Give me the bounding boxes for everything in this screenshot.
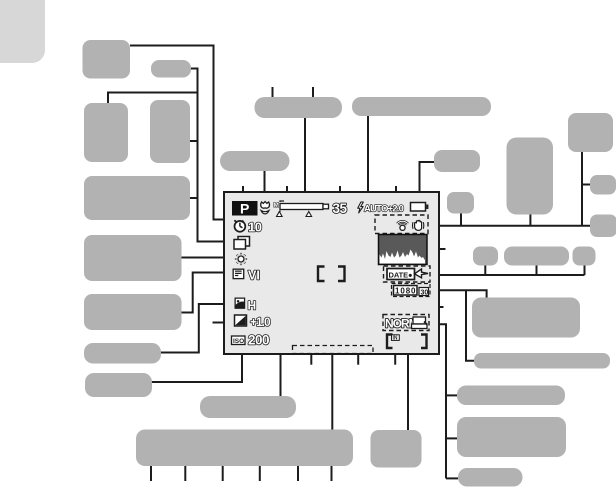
- flash auto indicator: [358, 202, 364, 213]
- NORM indicator: [383, 315, 429, 331]
- box hand: [447, 192, 474, 214]
- box remote: [151, 60, 191, 78]
- svg-text:P: P: [240, 201, 249, 217]
- wire NR small stub: [582, 184, 590, 186]
- box ISO Hi: [85, 373, 152, 397]
- wire date line: [430, 274, 585, 276]
- box link: [590, 215, 616, 238]
- wire focus box ticks: [151, 466, 332, 481]
- LCD screen: [224, 192, 439, 354]
- wire continuous box right: [189, 197, 198, 199]
- box self-timer: [83, 40, 131, 79]
- box exposure bar: [200, 396, 296, 418]
- macro tulip indicator: [261, 202, 270, 209]
- center focus brackets: [318, 267, 345, 282]
- wire picture control: [181, 273, 236, 313]
- box AF AE-AF-L: [255, 97, 343, 118]
- wire wifi box stub: [529, 214, 531, 226]
- wire HS movie branch: [466, 290, 474, 361]
- wire flash box down: [367, 115, 369, 193]
- box HDR: [150, 100, 190, 163]
- box battery: [434, 150, 480, 172]
- wire AF AE/AF-L down to screen: [304, 117, 306, 193]
- wire bottom stub 2: [357, 354, 359, 365]
- svg-text:DATE●: DATE●: [389, 270, 413, 279]
- box date: [504, 247, 569, 266]
- svg-text:IN: IN: [393, 336, 398, 342]
- wire FINE branch: [446, 394, 457, 396]
- wire ISO to Hi1 box: [151, 344, 242, 382]
- wire 1080 movie line: [430, 290, 487, 298]
- battery indicator: [411, 203, 426, 212]
- wire histogram stub: [427, 248, 446, 250]
- box BKT: [84, 103, 128, 162]
- box HS movie: [474, 353, 610, 369]
- box clock: [473, 247, 498, 266]
- IN brackets indicator: [387, 335, 427, 349]
- box wide std: [458, 468, 523, 487]
- wire size branch: [446, 437, 457, 439]
- page edge tab: [0, 0, 45, 63]
- box movie options: [472, 298, 580, 338]
- wire IN box line: [407, 348, 409, 430]
- callout boxes: [83, 40, 616, 487]
- bottom dashed box: [293, 346, 374, 354]
- wire clock stub: [484, 265, 486, 275]
- wire date stub: [536, 265, 538, 275]
- box NR small: [590, 175, 616, 195]
- svg-text:10: 10: [248, 220, 262, 235]
- svg-text:1080: 1080: [395, 287, 416, 296]
- box focus area: [136, 430, 353, 467]
- wire focus mode box down: [264, 170, 266, 193]
- box image size: [457, 417, 566, 457]
- continuous indicator: [234, 237, 250, 250]
- wire IN stub: [394, 349, 396, 365]
- box white balance: [84, 235, 182, 281]
- box continuous: [84, 176, 190, 220]
- wire BKT group top: [108, 93, 198, 105]
- exposure comp indicator: [235, 315, 247, 326]
- wifi hand dashed area: [375, 215, 428, 234]
- wire battery box to screen: [420, 162, 435, 193]
- box image quality: [457, 386, 565, 406]
- picture control indicator: [233, 269, 244, 278]
- wire exposure comp stub: [213, 322, 232, 324]
- box active D-lighting: [84, 343, 161, 364]
- wire mid-right stub: [427, 306, 444, 308]
- wire bottom stub 1: [310, 354, 312, 365]
- svg-text:30: 30: [421, 289, 429, 296]
- box focus mode: [220, 151, 290, 171]
- box airplane: [573, 247, 596, 266]
- wire AF AE/AF-L ticks up: [273, 87, 314, 98]
- mode P indicator: [232, 201, 258, 216]
- wire HDR right: [189, 140, 198, 142]
- box picture control: [84, 294, 182, 330]
- histogram: [379, 235, 428, 265]
- wire focus area line: [331, 282, 333, 430]
- date imprint indicator: [384, 266, 431, 282]
- wire NORM to quality chain: [429, 324, 446, 478]
- box NR big: [568, 113, 613, 152]
- svg-text:AUTO+2.0: AUTO+2.0: [364, 204, 404, 215]
- wire remote chain to continuous indicator: [191, 69, 229, 242]
- self timer 10 indicator: [234, 220, 245, 231]
- wire top edge stubs: [243, 186, 396, 192]
- movie 1080 indicator: [392, 284, 431, 297]
- wire airplane stub: [584, 265, 586, 275]
- wire self-timer box to screen: [130, 46, 229, 220]
- svg-text:ISO: ISO: [233, 338, 244, 345]
- svg-text:+1.0: +1.0: [250, 315, 271, 329]
- box flash: [352, 97, 491, 116]
- svg-text:M: M: [274, 202, 279, 209]
- ISO 200 indicator: [232, 336, 246, 345]
- box wifi: [507, 138, 554, 215]
- wire wide branch: [446, 477, 458, 479]
- wire hand stub: [460, 213, 462, 226]
- svg-text:H: H: [248, 299, 257, 313]
- wire white balance: [181, 257, 234, 259]
- wire wifi main line: [426, 225, 590, 227]
- white balance sun indicator: [235, 253, 247, 265]
- svg-text:35: 35: [333, 201, 348, 216]
- svg-text:VI: VI: [248, 269, 260, 283]
- wire NR vertical: [581, 152, 583, 226]
- wire active D-lighting: [160, 304, 233, 353]
- svg-text:200: 200: [248, 333, 269, 348]
- wire exposure bar line: [280, 347, 282, 396]
- D-lighting indicator: [235, 298, 244, 308]
- box IN brackets: [371, 430, 422, 468]
